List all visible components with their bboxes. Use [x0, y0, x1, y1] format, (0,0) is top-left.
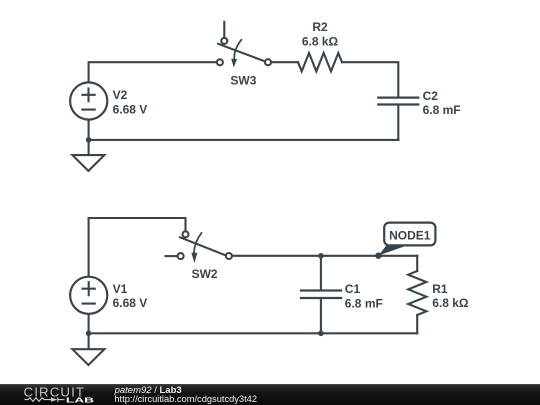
wire C1 bottom lead [320, 298, 322, 333]
bottom rail (top circuit) [89, 139, 399, 141]
junction V1 bottom [86, 331, 92, 337]
svg-text:6.8 kΩ: 6.8 kΩ [432, 296, 469, 310]
junction C1 bottom [318, 331, 324, 337]
wire V2 bottom to ground [88, 120, 90, 155]
resistor R2 [298, 53, 342, 71]
ground (bottom circuit) [72, 349, 104, 365]
wire V2 top to SW3 left throw [89, 62, 217, 81]
node flag NODE1 pointer [378, 245, 406, 256]
svg-text:SW2: SW2 [192, 267, 218, 281]
junction (top circuit rail) [86, 137, 92, 143]
logo resistor-diode glyph [25, 397, 65, 402]
voltage source V2 [70, 82, 107, 119]
capacitor C1 [301, 291, 341, 299]
wire R2 to C2 [342, 62, 398, 96]
svg-text:NODE1: NODE1 [389, 228, 431, 242]
wire C1 top lead [320, 256, 322, 291]
resistor R1 [408, 271, 426, 315]
wire V1 bottom to ground [88, 314, 90, 349]
wire V1 top to SW2 pole [89, 218, 186, 276]
node flag NODE1 box [384, 223, 435, 246]
voltage source V1 [70, 277, 107, 314]
switch SW3 [217, 22, 271, 68]
svg-text:V2: V2 [113, 88, 128, 102]
footer bar [0, 384, 540, 405]
svg-text:6.8 mF: 6.8 mF [423, 103, 461, 117]
wire SW2 right throw to R1 corner [232, 255, 417, 257]
svg-text:R1: R1 [432, 282, 448, 296]
ground (top circuit) [72, 155, 104, 171]
resistor R1 top lead [416, 256, 418, 271]
bottom rail (bottom circuit) [89, 332, 418, 334]
svg-text:6.8 mF: 6.8 mF [345, 296, 383, 310]
capacitor C2 [378, 98, 418, 105]
resistor R1 bottom lead [416, 315, 418, 333]
svg-text:C1: C1 [345, 282, 361, 296]
wire SW3 right throw to R2 [271, 61, 298, 63]
svg-text:6.68 V: 6.68 V [113, 296, 148, 310]
svg-text:V1: V1 [113, 282, 128, 296]
svg-text:LAB: LAB [66, 396, 95, 405]
svg-text:http://circuitlab.com/cdgsutcd: http://circuitlab.com/cdgsutcdy3t42 [114, 394, 257, 404]
svg-text:R2: R2 [312, 20, 328, 34]
switch SW2 [166, 231, 232, 263]
svg-text:C2: C2 [423, 89, 439, 103]
svg-text:6.68 V: 6.68 V [113, 102, 148, 116]
wire C2 to bottom rail [397, 106, 399, 140]
svg-text:6.8 kΩ: 6.8 kΩ [302, 34, 339, 48]
node NODE1 junction dot [375, 253, 381, 259]
junction C1 top [318, 253, 324, 259]
svg-text:SW3: SW3 [230, 73, 256, 87]
